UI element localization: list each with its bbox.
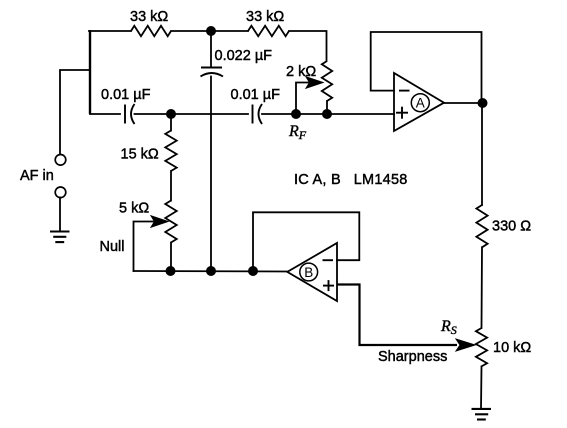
ground right bbox=[472, 409, 492, 420]
wiper R7 arrow bbox=[456, 339, 475, 351]
wire R5 bottom lead bbox=[326, 101, 328, 114]
wiper R5 arrow bbox=[306, 77, 323, 88]
capacitor C1 0.022 uF plates bbox=[201, 68, 224, 77]
op-amp U1B circle label bbox=[300, 263, 318, 281]
wire middle bus right segment to op-amp A plus input bbox=[262, 113, 394, 115]
wire U1A feedback loop bbox=[371, 32, 482, 103]
wire AF in riser bbox=[60, 70, 90, 155]
node RF bottom dot bbox=[322, 109, 332, 119]
wire right bus middle segment bbox=[481, 247, 484, 328]
node bottom dot 1 bbox=[166, 266, 176, 276]
svg-text:10 kΩ: 10 kΩ bbox=[493, 340, 531, 356]
wire top-left vertical (thick) bbox=[89, 30, 91, 114]
op-amp U1A triangle bbox=[394, 73, 444, 131]
ground left bbox=[50, 232, 70, 243]
svg-text:33 kΩ: 33 kΩ bbox=[130, 9, 168, 25]
wire R3 to pot R4 bbox=[170, 171, 172, 201]
svg-text:33 kΩ: 33 kΩ bbox=[246, 9, 284, 25]
node tee junction dot bbox=[166, 109, 176, 119]
wire top bus right segment to 2k pot bbox=[289, 31, 327, 61]
resistor R2 33 k bbox=[248, 26, 289, 36]
svg-text:5 kΩ: 5 kΩ bbox=[119, 201, 149, 217]
resistor R3 15 k bbox=[165, 131, 176, 172]
svg-text:0.01 µF: 0.01 µF bbox=[231, 87, 281, 103]
svg-text:AF in: AF in bbox=[20, 168, 54, 184]
resistor R6 330 bbox=[476, 205, 487, 247]
wire bottom bus bbox=[134, 270, 288, 273]
wire top bus left segment bbox=[89, 30, 131, 32]
svg-text:0.01 µF: 0.01 µF bbox=[101, 87, 151, 103]
terminal AF in lower bbox=[55, 187, 66, 198]
capacitor C1 0.022 uF top lead bbox=[210, 31, 212, 67]
capacitor C2 0.01 uF bbox=[125, 104, 135, 124]
node bottom dot 3 bbox=[248, 266, 258, 276]
wiper R4 wire bbox=[134, 222, 154, 272]
node RF wiper dot bbox=[291, 109, 301, 119]
wire lower terminal to ground bbox=[59, 198, 61, 232]
resistor R3 15 k lead bbox=[170, 114, 172, 131]
op-amp U1A circle label bbox=[411, 94, 429, 112]
op-amp U1A minus sign bbox=[399, 90, 410, 92]
wire R7 bottom lead bbox=[480, 366, 483, 409]
node top junction dot bbox=[206, 26, 216, 36]
wire C1 bottom lead down to bottom bus bbox=[210, 77, 212, 272]
terminal AF in upper bbox=[55, 155, 66, 166]
svg-text:0.022 µF: 0.022 µF bbox=[215, 48, 273, 64]
node bottom dot 2 bbox=[206, 266, 216, 276]
wire middle bus left segment bbox=[90, 113, 120, 115]
potentiometer R5 2 k bbox=[322, 61, 332, 101]
wire U1A output bbox=[444, 102, 483, 104]
wiper R5 wire bbox=[296, 83, 308, 115]
resistor R1 33 k bbox=[131, 26, 171, 36]
svg-text:Sharpness: Sharpness bbox=[378, 349, 447, 365]
svg-text:A: A bbox=[416, 96, 425, 111]
wiper R4 arrow bbox=[151, 216, 168, 227]
svg-text:330 Ω: 330 Ω bbox=[492, 219, 531, 235]
wire middle bus to tee node bbox=[135, 113, 249, 115]
svg-text:15 kΩ: 15 kΩ bbox=[121, 147, 159, 163]
svg-text:IC A, B LM1458: IC A, B LM1458 bbox=[294, 172, 408, 188]
svg-text:B: B bbox=[304, 265, 313, 280]
op-amp U1B plus sign bbox=[323, 280, 334, 291]
wire U1B plus input to sharpness pot bbox=[337, 285, 457, 346]
wire top bus middle segment bbox=[171, 30, 248, 32]
node U1A output dot bbox=[478, 98, 488, 108]
svg-text:2 kΩ: 2 kΩ bbox=[286, 64, 316, 80]
op-amp U1B minus sign bbox=[323, 259, 334, 261]
potentiometer R7 10 k bbox=[476, 328, 487, 366]
wire U1B feedback loop bbox=[253, 212, 359, 271]
wire R4 bottom lead bbox=[170, 243, 172, 272]
svg-text:Null: Null bbox=[100, 239, 125, 255]
potentiometer R4 5 k bbox=[165, 201, 176, 243]
capacitor C3 0.01 uF bbox=[253, 104, 263, 124]
op-amp U1A plus sign bbox=[396, 107, 408, 119]
wire right bus upper segment bbox=[481, 103, 483, 205]
op-amp U1B triangle bbox=[287, 243, 337, 301]
